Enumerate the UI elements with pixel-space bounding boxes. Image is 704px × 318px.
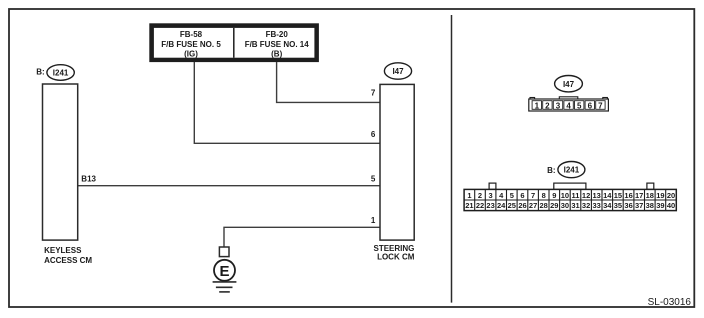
svg-text:I47: I47 bbox=[392, 67, 404, 76]
svg-text:FB-58: FB-58 bbox=[180, 30, 203, 39]
svg-text:22: 22 bbox=[476, 201, 484, 210]
I47 connector housing bbox=[529, 97, 609, 111]
svg-text:SL-03016: SL-03016 bbox=[648, 297, 692, 308]
svg-text:I241: I241 bbox=[564, 166, 580, 175]
svg-text:I241: I241 bbox=[53, 68, 69, 77]
wire FB-58 (IG) to steering lock pin 6 bbox=[194, 62, 380, 143]
wire steering lock pin 1 to ground bbox=[224, 227, 380, 247]
svg-text:30: 30 bbox=[561, 201, 569, 210]
svg-text:14: 14 bbox=[603, 191, 612, 200]
svg-text:39: 39 bbox=[656, 201, 664, 210]
svg-text:38: 38 bbox=[646, 201, 654, 210]
svg-text:F/B FUSE NO. 5: F/B FUSE NO. 5 bbox=[161, 40, 221, 49]
fuse FB-58 label bbox=[161, 30, 221, 58]
ground lines bbox=[213, 281, 237, 283]
svg-text:1: 1 bbox=[371, 216, 376, 225]
ground circle E bbox=[214, 260, 235, 281]
svg-text:40: 40 bbox=[667, 201, 675, 210]
svg-text:25: 25 bbox=[508, 201, 516, 210]
svg-text:9: 9 bbox=[552, 191, 556, 200]
svg-text:12: 12 bbox=[582, 191, 590, 200]
svg-text:2: 2 bbox=[478, 191, 482, 200]
svg-text:21: 21 bbox=[465, 201, 473, 210]
svg-text:33: 33 bbox=[593, 201, 601, 210]
I241 pin grid 1-40 bbox=[464, 189, 676, 210]
wire FB-20 (B) to steering lock pin 7 bbox=[277, 62, 380, 102]
svg-text:35: 35 bbox=[614, 201, 622, 210]
svg-text:FB-20: FB-20 bbox=[266, 30, 289, 39]
svg-text:6: 6 bbox=[371, 130, 376, 139]
keyless access CM block bbox=[43, 84, 78, 240]
svg-text:7: 7 bbox=[598, 101, 603, 110]
svg-text:1: 1 bbox=[467, 191, 471, 200]
svg-text:28: 28 bbox=[540, 201, 548, 210]
svg-text:2: 2 bbox=[545, 101, 550, 110]
svg-text:KEYLESS: KEYLESS bbox=[44, 246, 82, 255]
svg-text:F/B FUSE NO. 14: F/B FUSE NO. 14 bbox=[245, 40, 310, 49]
svg-text:23: 23 bbox=[486, 201, 494, 210]
svg-text:19: 19 bbox=[656, 191, 664, 200]
svg-text:18: 18 bbox=[646, 191, 654, 200]
svg-text:(IG): (IG) bbox=[184, 49, 198, 58]
svg-text:5: 5 bbox=[510, 191, 514, 200]
svg-text:B:: B: bbox=[547, 166, 555, 175]
svg-text:8: 8 bbox=[542, 191, 546, 200]
svg-text:6: 6 bbox=[520, 191, 524, 200]
svg-text:B:: B: bbox=[36, 68, 44, 77]
I241 connector housing tabs bbox=[489, 183, 654, 189]
svg-text:27: 27 bbox=[529, 201, 537, 210]
svg-text:5: 5 bbox=[371, 175, 376, 184]
svg-text:B13: B13 bbox=[81, 174, 96, 183]
svg-text:E: E bbox=[219, 263, 229, 280]
fuse box FB-58 / FB-20 bbox=[149, 23, 319, 62]
svg-text:11: 11 bbox=[572, 191, 580, 200]
svg-text:37: 37 bbox=[635, 201, 643, 210]
svg-text:26: 26 bbox=[518, 201, 526, 210]
I47 pin cells 1-7 bbox=[532, 101, 605, 111]
wire B13 keyless access CM to steering lock pin 5 bbox=[78, 185, 380, 187]
steering lock CM block bbox=[380, 84, 414, 240]
svg-text:LOCK CM: LOCK CM bbox=[377, 253, 415, 262]
svg-text:(B): (B) bbox=[271, 49, 282, 58]
svg-text:16: 16 bbox=[624, 191, 632, 200]
steering lock CM label bbox=[373, 244, 414, 261]
keyless access CM label bbox=[44, 246, 92, 265]
svg-text:4: 4 bbox=[566, 101, 571, 110]
svg-text:15: 15 bbox=[614, 191, 622, 200]
svg-text:3: 3 bbox=[556, 101, 561, 110]
right panel: connector label B: I241 bbox=[547, 162, 585, 178]
svg-text:7: 7 bbox=[371, 89, 376, 98]
svg-text:1: 1 bbox=[535, 101, 540, 110]
svg-text:32: 32 bbox=[582, 201, 590, 210]
ground connector square bbox=[219, 247, 229, 257]
fuse FB-20 label bbox=[245, 30, 310, 58]
svg-text:3: 3 bbox=[489, 191, 493, 200]
svg-text:ACCESS CM: ACCESS CM bbox=[44, 256, 92, 265]
svg-text:24: 24 bbox=[497, 201, 506, 210]
svg-text:20: 20 bbox=[667, 191, 675, 200]
svg-text:6: 6 bbox=[588, 101, 593, 110]
svg-text:34: 34 bbox=[603, 201, 612, 210]
svg-text:10: 10 bbox=[561, 191, 569, 200]
svg-text:31: 31 bbox=[571, 201, 579, 210]
svg-text:17: 17 bbox=[635, 191, 643, 200]
connector label I47 (left diagram) bbox=[384, 63, 411, 79]
connector label B: I241 (left) bbox=[36, 65, 74, 81]
panel divider bbox=[451, 15, 453, 303]
svg-text:7: 7 bbox=[531, 191, 535, 200]
right panel: connector I47 pinout bbox=[555, 76, 583, 92]
svg-text:5: 5 bbox=[577, 101, 582, 110]
svg-text:13: 13 bbox=[593, 191, 601, 200]
svg-text:36: 36 bbox=[624, 201, 632, 210]
svg-text:I47: I47 bbox=[563, 80, 575, 89]
svg-text:29: 29 bbox=[550, 201, 558, 210]
